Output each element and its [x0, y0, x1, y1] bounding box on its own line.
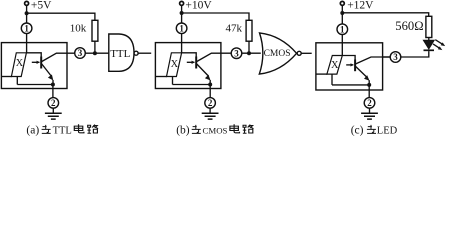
- svg-text:1: 1: [179, 24, 184, 34]
- wire resistor bottom: [94, 41, 96, 53]
- wire pin2 to ground: [52, 108, 54, 113]
- wire cathode return: [17, 84, 53, 86]
- wire pin2 to ground: [209, 108, 211, 113]
- svg-text:CMOS: CMOS: [203, 125, 228, 135]
- CJK lu (b): [243, 125, 254, 134]
- svg-text:1: 1: [24, 24, 29, 34]
- pin 1: [176, 23, 187, 34]
- resistor R3 560ohm: [426, 16, 432, 37]
- ground: [202, 113, 219, 119]
- svg-text:X: X: [331, 60, 339, 71]
- svg-text:1: 1: [340, 24, 345, 34]
- terminal +12V: [340, 1, 344, 5]
- CJK dian (b): [230, 124, 240, 133]
- transistor Q2 base bar: [195, 57, 197, 69]
- wire terminal to pin1 circle: [341, 5, 343, 24]
- resistor R2 47k: [246, 20, 252, 41]
- transistor Q1 collector: [42, 53, 75, 61]
- wire to resistor R3: [342, 13, 428, 16]
- wire emitter down: [368, 80, 370, 85]
- LED lamp symbol: [11, 53, 26, 77]
- svg-text:3: 3: [393, 52, 398, 62]
- pin 3: [231, 48, 242, 59]
- junction dot A: [25, 11, 29, 15]
- junction dot D: [180, 11, 184, 15]
- pin 3: [75, 48, 86, 59]
- svg-text:3: 3: [78, 48, 83, 58]
- wire to pin 2: [52, 85, 54, 98]
- pin 1: [337, 24, 348, 35]
- CJK lu (a): [87, 125, 98, 134]
- optocoupler U3 box: [155, 43, 221, 89]
- svg-text:10k: 10k: [70, 23, 87, 35]
- pin 2: [364, 98, 375, 109]
- ground: [45, 113, 62, 119]
- wire pin3 to gate: [86, 52, 109, 54]
- wire pin1 to box: [181, 34, 183, 53]
- LED cathode bar: [424, 49, 435, 51]
- transistor Q3 base bar: [354, 60, 356, 72]
- wire box edge to LED: [1, 76, 11, 78]
- wire to resistor R1: [27, 13, 95, 20]
- output wire: [301, 52, 311, 54]
- pin 2: [48, 98, 59, 109]
- wire pin1 to box: [341, 35, 343, 56]
- ground: [361, 113, 378, 119]
- light arrow: [187, 61, 195, 63]
- caption (b): [176, 124, 227, 136]
- wire pin1 to box: [26, 34, 28, 53]
- gate U4 CMOS: [259, 33, 296, 74]
- wire emitter down: [52, 80, 54, 85]
- gate U2 TTL: [109, 34, 134, 71]
- inverter bubble: [297, 51, 301, 55]
- wire LED to pin3 line: [401, 51, 429, 57]
- svg-text:+12V: +12V: [347, 0, 374, 11]
- wire pin3 to gate: [242, 52, 261, 54]
- junction dot G: [340, 11, 344, 15]
- output wire: [138, 52, 151, 54]
- wire LED bottom drop: [172, 77, 174, 85]
- svg-text:2: 2: [208, 98, 213, 108]
- wire box edge to LED: [155, 76, 167, 78]
- wire LED bottom drop: [331, 74, 333, 85]
- transistor Q2 collector: [197, 53, 231, 61]
- LED D1 anode lead: [428, 38, 430, 41]
- optocoupler U1 box: [1, 43, 67, 89]
- wire box to pin3: [383, 56, 391, 58]
- LED D1: [423, 40, 434, 49]
- svg-text:2: 2: [51, 98, 56, 108]
- svg-text:560Ω: 560Ω: [395, 19, 423, 33]
- pin 2: [205, 98, 216, 109]
- LED lamp symbol: [167, 53, 182, 77]
- inverter bubble: [134, 51, 138, 55]
- LED arrow 1: [435, 40, 442, 45]
- terminal +5V: [25, 1, 29, 5]
- svg-text:LED: LED: [377, 125, 398, 136]
- resistor R1 10k: [92, 20, 98, 41]
- wire resistor bottom: [248, 41, 250, 53]
- svg-text:X: X: [16, 58, 24, 69]
- transistor Q1 emitter: [42, 64, 51, 76]
- CJK dian (a): [74, 124, 84, 133]
- wire LED bottom drop: [16, 77, 18, 85]
- CJK yu (a): [42, 125, 51, 133]
- svg-text:CMOS: CMOS: [264, 49, 291, 59]
- wire node to base: [342, 56, 355, 60]
- caption (a): [26, 124, 71, 136]
- light arrow: [346, 64, 353, 66]
- wire terminal to pin1 circle: [181, 5, 183, 23]
- LED lamp symbol: [327, 56, 342, 75]
- pin 3: [390, 52, 401, 63]
- transistor Q2 emitter: [197, 64, 209, 76]
- junction dot H: [367, 83, 371, 87]
- LED arrow 2: [433, 44, 440, 48]
- wire box edge to LED: [316, 73, 327, 75]
- wire node to base: [26, 53, 41, 57]
- wire emitter down: [209, 80, 211, 85]
- wire terminal to pin1 circle: [26, 5, 28, 23]
- wire cathode return: [173, 84, 211, 86]
- CJK yu (b): [192, 125, 201, 133]
- pin 1: [21, 23, 32, 34]
- caption (c): [351, 124, 398, 136]
- terminal +10V: [180, 1, 184, 5]
- wire node to base: [182, 53, 197, 57]
- junction dot E: [247, 51, 251, 55]
- junction dot C: [51, 83, 55, 87]
- svg-text:(c): (c): [351, 124, 364, 136]
- svg-text:(a): (a): [26, 124, 39, 136]
- wire to pin 2: [368, 85, 370, 98]
- svg-text:TTL: TTL: [110, 48, 130, 60]
- svg-text:(b): (b): [176, 124, 190, 136]
- transistor Q3 emitter: [356, 67, 368, 78]
- svg-text:47k: 47k: [226, 23, 243, 35]
- junction dot B: [93, 51, 97, 55]
- transistor Q1 base bar: [40, 57, 42, 69]
- CJK yu (c): [367, 125, 376, 133]
- wire to resistor R2: [182, 13, 249, 20]
- svg-text:+5V: +5V: [31, 0, 52, 11]
- svg-text:X: X: [171, 59, 179, 70]
- svg-text:+10V: +10V: [185, 0, 212, 11]
- svg-text:TTL: TTL: [53, 125, 72, 136]
- svg-text:2: 2: [367, 98, 372, 108]
- svg-text:3: 3: [234, 48, 239, 58]
- light arrow: [32, 61, 40, 63]
- optocoupler U5 box: [316, 43, 383, 90]
- wire pin2 to ground: [369, 108, 371, 113]
- wire to pin 2: [209, 85, 211, 98]
- junction dot F: [208, 83, 212, 87]
- wire cathode return: [332, 84, 369, 86]
- transistor Q3 collector: [356, 57, 391, 64]
